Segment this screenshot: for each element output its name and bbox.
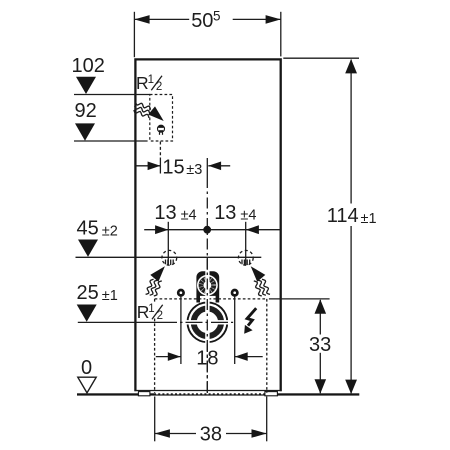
drain pipe circle bbox=[186, 301, 229, 344]
svg-text:1: 1 bbox=[148, 74, 154, 86]
dimension 38 line bbox=[155, 433, 196, 435]
dashed hole left bbox=[162, 250, 177, 265]
level 45 line bbox=[76, 256, 262, 258]
dashed hole right bbox=[238, 250, 253, 265]
dimension 50_5 extension left bbox=[133, 12, 135, 57]
dimension 18 arrow left bbox=[168, 352, 181, 361]
level 25 triangle bbox=[77, 305, 97, 322]
dimension 38 arrow left bbox=[155, 429, 170, 438]
svg-text:±1: ±1 bbox=[361, 211, 377, 227]
water inlet symbol bottom-left (arrow up-right with waves) bbox=[146, 266, 165, 296]
extension line right (to dashed hole) bbox=[245, 222, 247, 265]
svg-text:92: 92 bbox=[75, 100, 97, 122]
bottom dashed box right edge bbox=[266, 299, 268, 393]
svg-text:±4: ±4 bbox=[240, 208, 256, 224]
top dashed box bbox=[150, 95, 173, 142]
svg-text:33: 33 bbox=[309, 334, 331, 356]
module outline bbox=[135, 59, 280, 391]
level 92 line bbox=[74, 140, 148, 142]
svg-text:±1: ±1 bbox=[102, 288, 118, 304]
water inlet symbol top (arrow down-right with waves) bbox=[134, 102, 164, 121]
dimension 18 line left bbox=[156, 356, 181, 358]
dimension 18 extension left bbox=[180, 297, 182, 365]
dimension 13 left arrow bbox=[155, 225, 168, 234]
dimension 50_5 arrow left bbox=[134, 15, 149, 24]
svg-text:114: 114 bbox=[327, 205, 359, 227]
level 102 line bbox=[74, 94, 150, 96]
dimension 33 line bbox=[319, 300, 321, 335]
dimension 38 arrow right bbox=[252, 429, 267, 438]
svg-text:1: 1 bbox=[148, 303, 154, 315]
extension line left (to dashed hole) bbox=[167, 222, 169, 265]
water inlet symbol bottom-right (arrow up-left with waves) bbox=[251, 266, 270, 296]
svg-text:25: 25 bbox=[77, 282, 99, 304]
right foot bbox=[265, 392, 278, 396]
dimension 38 extension left bbox=[154, 397, 156, 442]
R1/2 bottom label bbox=[137, 302, 163, 322]
svg-text:2: 2 bbox=[156, 81, 162, 93]
dimension 15 arrow left bbox=[148, 162, 161, 171]
dimension 15 arrow right bbox=[208, 162, 221, 171]
svg-text:18: 18 bbox=[196, 347, 218, 369]
level 45 triangle bbox=[78, 240, 98, 257]
dimension 13 +-4 line bbox=[144, 229, 280, 231]
floor dashed notch strip bbox=[156, 393, 266, 395]
horizontal centerline through drain bbox=[160, 321, 233, 323]
svg-text:±2: ±2 bbox=[102, 223, 118, 239]
svg-text:102: 102 bbox=[72, 55, 105, 77]
dimension 50_5 extension right bbox=[280, 12, 282, 57]
dimension 13 right arrow bbox=[246, 225, 259, 234]
angle stop valve symbol bbox=[158, 125, 165, 135]
lightning bolt bbox=[247, 308, 256, 325]
small screw hole left bbox=[178, 290, 183, 295]
valve drop line dashed bbox=[159, 142, 161, 157]
svg-text:38: 38 bbox=[200, 424, 222, 446]
svg-text:±3: ±3 bbox=[186, 162, 202, 178]
svg-text:±4: ±4 bbox=[181, 208, 197, 224]
dimension 33 arrow down bbox=[315, 379, 327, 393]
flush bend fitting (capsule) bbox=[196, 270, 219, 303]
small screw hole right bbox=[232, 290, 237, 295]
svg-text:50: 50 bbox=[191, 10, 213, 32]
level 92 triangle bbox=[75, 123, 95, 140]
left foot bbox=[138, 392, 150, 396]
dimension 114 arrow up bbox=[345, 59, 357, 73]
valve drop line solid tick bbox=[159, 158, 161, 174]
level 102 triangle bbox=[76, 77, 96, 94]
svg-text:5: 5 bbox=[213, 9, 221, 24]
dimension 114 top extension bbox=[283, 57, 359, 59]
dimension 114 line bbox=[350, 60, 352, 204]
dimension 18 line right bbox=[235, 356, 263, 358]
svg-text:45: 45 bbox=[77, 218, 99, 240]
dimension 114 arrow down bbox=[345, 380, 357, 394]
dimension 50_5 arrow right bbox=[266, 15, 281, 24]
dimension 33 extension bbox=[269, 298, 330, 300]
svg-text:0: 0 bbox=[81, 357, 92, 379]
dimension 13 center dot bbox=[203, 226, 211, 234]
svg-text:13: 13 bbox=[154, 202, 176, 224]
svg-text:13: 13 bbox=[214, 202, 236, 224]
module bottom edge bbox=[135, 390, 282, 392]
center line (chain) bbox=[206, 158, 208, 177]
R1/2 top label bbox=[136, 73, 162, 93]
svg-text:15: 15 bbox=[162, 156, 184, 178]
dimension 18 extension right bbox=[234, 297, 236, 365]
bottom dashed box top edge bbox=[155, 298, 267, 300]
svg-text:2: 2 bbox=[157, 310, 163, 322]
dimension 33 arrow up bbox=[315, 299, 327, 313]
level 25 line bbox=[78, 321, 160, 323]
vertical centerline through drain (redraw over white channels) bbox=[206, 258, 208, 393]
dimension 18 arrow right bbox=[235, 352, 248, 361]
dimension 50_5 line bbox=[134, 18, 189, 20]
floor line bbox=[77, 393, 359, 395]
dimension 38 extension right bbox=[266, 397, 268, 442]
bottom dashed box left edge bbox=[154, 299, 156, 302]
dimension 15 line right bbox=[208, 165, 230, 167]
dimension 15 +-3 line left bbox=[136, 165, 161, 167]
level 0 open triangle bbox=[78, 377, 96, 393]
